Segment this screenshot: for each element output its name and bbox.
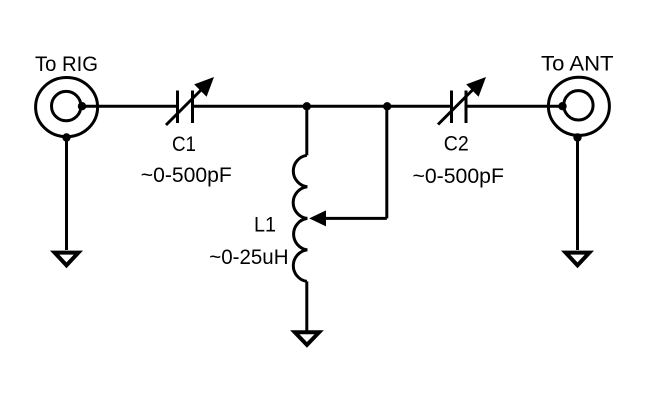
wire J1 to C1: [82, 105, 178, 108]
node at J2 center pin: [558, 102, 566, 110]
ground below J2: [566, 253, 590, 266]
wire C2 to J2: [466, 105, 563, 108]
capacitor C2 (variable): [438, 77, 486, 125]
wire node A down to L1: [305, 106, 308, 155]
ground below J1: [55, 253, 79, 266]
node at J1 center pin: [78, 102, 86, 110]
node at J1 shell: [62, 133, 70, 141]
wire node B down: [385, 106, 388, 218]
wire J1 shell to ground: [65, 138, 68, 251]
svg-text:To ANT: To ANT: [541, 52, 614, 76]
tap arrow into L1: [309, 210, 326, 226]
capacitor C1 (variable): [166, 77, 214, 125]
svg-text:~0-500pF: ~0-500pF: [412, 164, 504, 188]
wire L1 to ground: [305, 281, 308, 331]
connector J1 (To RIG coax jack): [36, 78, 98, 137]
svg-text:C2: C2: [444, 132, 469, 156]
svg-text:C1: C1: [172, 132, 196, 156]
wire tap horizontal: [326, 217, 387, 220]
wire C1 to C2: [193, 105, 452, 108]
wire J2 shell to ground: [576, 138, 579, 251]
svg-text:~0-25uH: ~0-25uH: [209, 245, 288, 269]
svg-text:L1: L1: [254, 213, 276, 237]
node A (top of L1): [303, 102, 311, 110]
inductor L1: [293, 155, 307, 281]
ground below L1: [295, 332, 319, 345]
node at J2 shell: [573, 133, 581, 141]
svg-text:~0-500pF: ~0-500pF: [141, 163, 232, 187]
node B (tap feed): [383, 102, 391, 110]
connector J2 (To ANT coax jack): [548, 77, 609, 135]
svg-text:To RIG: To RIG: [35, 52, 98, 76]
